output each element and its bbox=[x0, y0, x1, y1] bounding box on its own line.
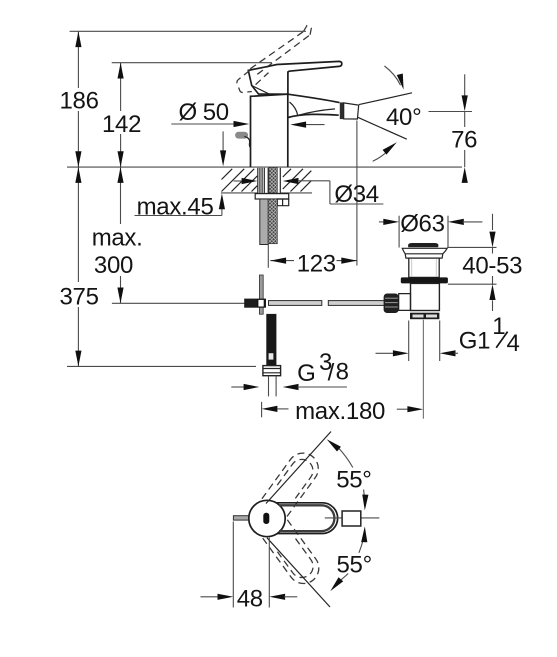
spout top edge bbox=[288, 94, 340, 102]
dashed lever (open position) arm bbox=[250, 31, 305, 69]
40-53 extension lines bbox=[447, 246, 496, 248]
extension line at hose level bbox=[112, 302, 245, 304]
supply hose stud bbox=[266, 314, 276, 366]
horizontal pull rod / hose right segment bbox=[328, 301, 384, 306]
D50 right counter arrow bbox=[305, 124, 325, 126]
drain seal ring bbox=[401, 277, 448, 283]
svg-text:Ø34: Ø34 bbox=[334, 181, 378, 208]
svg-text:G: G bbox=[297, 360, 315, 387]
dimension max.180 bbox=[261, 402, 263, 417]
svg-text:max.180: max.180 bbox=[295, 398, 385, 425]
svg-text:186: 186 bbox=[60, 87, 99, 114]
deck top surface line bbox=[67, 166, 462, 168]
swing ray lower bbox=[267, 538, 330, 607]
dimension 375 line bbox=[77, 167, 79, 282]
spray ray upper (40 deg) bbox=[359, 93, 412, 105]
55 deg lower arc bbox=[359, 534, 365, 553]
G3/8 nut bbox=[263, 366, 281, 376]
svg-text:300: 300 bbox=[94, 252, 133, 279]
horizontal pull rod / hose left segment bbox=[269, 301, 322, 306]
spray ray lower (40 deg) bbox=[358, 117, 407, 139]
clamp bracket bbox=[277, 199, 288, 206]
spout inner contour bbox=[290, 102, 336, 115]
svg-text:1: 1 bbox=[492, 313, 505, 340]
deck underside line bbox=[221, 192, 312, 194]
svg-text:375: 375 bbox=[60, 284, 99, 311]
cartridge square bbox=[342, 511, 361, 526]
G1 1/4 dimension arrows bbox=[376, 352, 395, 354]
drain plug top bbox=[408, 243, 438, 247]
D50 leader arrow bbox=[171, 123, 235, 125]
lever edge bands bbox=[279, 505, 334, 531]
48 dimension arrows bbox=[201, 596, 220, 598]
dimension 40-53 bbox=[492, 214, 494, 230]
svg-text:Ø: Ø bbox=[179, 99, 197, 126]
reference line top (overall height 186) bbox=[70, 30, 306, 32]
dashed handle rotated down 55 deg bbox=[263, 520, 325, 590]
drain side port bbox=[399, 294, 411, 311]
reference line spout height 142 bbox=[112, 62, 272, 64]
dimension 186 line bbox=[77, 31, 79, 88]
aerator end piece bbox=[344, 103, 359, 119]
faucet centreline below shank bbox=[267, 244, 269, 267]
drain rod knob bbox=[384, 294, 399, 314]
body circle (plan) bbox=[249, 500, 285, 536]
D63 extension lines bbox=[398, 216, 400, 248]
dashed lever tip bbox=[304, 26, 312, 35]
pull rod stem bbox=[259, 275, 263, 314]
cartridge slot bbox=[263, 513, 269, 524]
svg-text:40°: 40° bbox=[386, 104, 421, 131]
40 deg upper arc arrow bbox=[384, 66, 400, 85]
deck hatch right bbox=[283, 169, 312, 192]
handle lever (plan) bbox=[267, 503, 338, 534]
svg-text:/: / bbox=[328, 359, 335, 386]
svg-text:max.45: max.45 bbox=[137, 194, 214, 221]
shank through deck: white clear bbox=[258, 168, 281, 193]
spout aerator ring bbox=[340, 102, 344, 119]
G3/8 thread tube bbox=[268, 376, 270, 397]
40deg tick line to 76 dim bbox=[429, 111, 473, 113]
deck hatch left bbox=[222, 169, 258, 192]
D63 dimension arrows bbox=[379, 221, 385, 223]
svg-text:Ø63: Ø63 bbox=[400, 211, 444, 238]
spout bottom edge bbox=[288, 114, 339, 117]
inlet stub (plan) bbox=[233, 516, 250, 520]
swing ray upper bbox=[266, 432, 331, 504]
spout tip extension line bbox=[356, 121, 358, 266]
faucet body bbox=[251, 94, 288, 167]
G1 1/4 extension lines bbox=[408, 321, 410, 362]
svg-text:123: 123 bbox=[297, 250, 336, 277]
dashed knee outline (open position) bbox=[237, 71, 252, 93]
bottom reference line (supply end) bbox=[67, 365, 256, 367]
svg-text:142: 142 bbox=[102, 111, 141, 138]
drain body bbox=[411, 283, 440, 310]
dimension 142 line bbox=[120, 63, 122, 111]
G3/8 dimension arrows bbox=[231, 386, 245, 388]
pop-up waste drain centreline bbox=[422, 320, 424, 419]
threaded rod through deck bbox=[269, 167, 277, 193]
40 deg lower arc arrow bbox=[373, 146, 392, 161]
pull-rod knob on body bbox=[235, 132, 248, 139]
svg-text:55°: 55° bbox=[337, 552, 372, 579]
small vertical marker line at body front bbox=[222, 131, 224, 152]
D34 arrows bbox=[234, 180, 243, 182]
drain neck bbox=[409, 258, 439, 277]
svg-text:8: 8 bbox=[336, 358, 349, 385]
hose below deck bbox=[260, 199, 268, 245]
svg-text:4: 4 bbox=[507, 330, 520, 357]
svg-text:G1: G1 bbox=[459, 328, 490, 355]
shank outer tube lines bbox=[258, 168, 281, 193]
dimension max.300 line bbox=[120, 167, 122, 224]
svg-text:48: 48 bbox=[237, 585, 263, 612]
55 deg upper arc bbox=[338, 448, 353, 468]
drain bottom nut bbox=[410, 313, 439, 320]
svg-text:55°: 55° bbox=[336, 466, 371, 493]
lever crease line bbox=[252, 86, 271, 95]
dimension 76 bbox=[464, 74, 466, 97]
mounting washer bbox=[255, 194, 289, 199]
solid lever (handle) outline bbox=[248, 61, 342, 94]
dimension 123 bbox=[270, 260, 294, 262]
cross fitting bbox=[244, 299, 266, 308]
svg-text:max.: max. bbox=[92, 224, 143, 251]
48 extension lines bbox=[232, 522, 234, 608]
centreline through square bbox=[325, 517, 380, 519]
D34 label leader bbox=[329, 181, 331, 204]
dashed handle rotated up 55 deg bbox=[262, 447, 324, 517]
threaded rod below deck bbox=[268, 199, 277, 244]
svg-text:40-53: 40-53 bbox=[462, 253, 522, 280]
svg-text:76: 76 bbox=[451, 127, 477, 154]
pull-rod hook curve bbox=[244, 137, 250, 148]
dashed inner edge bbox=[256, 73, 269, 85]
drain flange bbox=[402, 248, 447, 258]
max.45 underline and arrow bbox=[135, 215, 222, 217]
svg-text:50: 50 bbox=[203, 99, 229, 126]
